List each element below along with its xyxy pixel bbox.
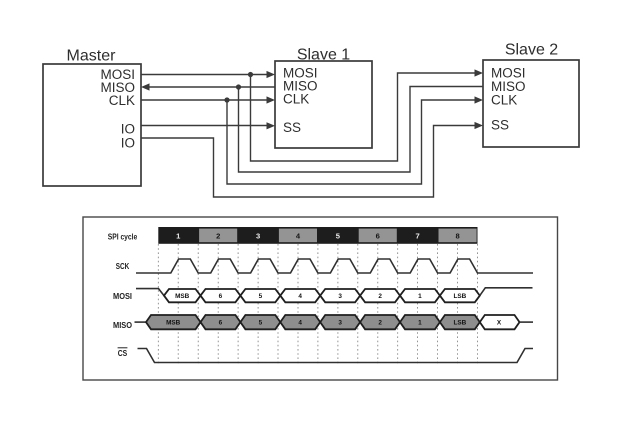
svg-text:5: 5 [259, 293, 263, 300]
svg-text:MSB: MSB [175, 293, 190, 300]
svg-text:CLK: CLK [491, 93, 517, 108]
svg-text:5: 5 [259, 320, 263, 327]
svg-text:LSB: LSB [454, 320, 467, 327]
svg-text:IO: IO [121, 136, 135, 151]
node MOSI junction [248, 72, 253, 77]
svg-text:8: 8 [455, 232, 459, 241]
svg-text:SPI cycle: SPI cycle [108, 231, 138, 241]
MISO bus segment LSB [440, 315, 480, 329]
svg-text:MOSI: MOSI [113, 291, 132, 301]
MISO bus segment 6 [201, 315, 241, 329]
MISO bus segment X [480, 315, 520, 329]
svg-text:6: 6 [219, 293, 223, 300]
svg-text:MISO: MISO [113, 320, 132, 330]
wire MISO slave1 to master [149, 86, 275, 88]
svg-text:SCK: SCK [116, 261, 130, 271]
block Slave 2 [483, 60, 579, 147]
svg-text:X: X [497, 320, 502, 327]
svg-text:3: 3 [338, 293, 342, 300]
MOSI bus segment 3 [320, 289, 360, 302]
SPI cycle bar [158, 227, 477, 244]
wire SS2 master IO to slave2 SS [141, 126, 476, 198]
svg-text:3: 3 [338, 320, 342, 327]
svg-text:MSB: MSB [166, 320, 181, 327]
svg-text:SS: SS [283, 120, 301, 135]
MISO bus segment 2 [360, 315, 400, 329]
wire SS1 master IO to slave1 SS [141, 125, 268, 127]
MISO bus segment 1 [400, 315, 440, 329]
block Master [43, 64, 141, 186]
svg-text:Slave 1: Slave 1 [297, 47, 350, 64]
svg-text:CLK: CLK [109, 93, 135, 108]
wire CLK master to slave1 [141, 99, 268, 101]
signal MOSI tail [480, 288, 533, 296]
svg-text:1: 1 [418, 320, 422, 327]
MOSI bus segment MSB [164, 289, 201, 302]
timing grid dotted verticals [158, 244, 477, 365]
svg-text:IO: IO [121, 122, 135, 137]
signal MISO tail [520, 321, 534, 323]
svg-text:3: 3 [256, 232, 260, 241]
svg-text:7: 7 [415, 232, 419, 241]
svg-text:SS: SS [491, 118, 509, 133]
svg-text:4: 4 [298, 320, 302, 327]
node MISO junction [236, 84, 241, 89]
MISO bus segment 4 [280, 315, 320, 329]
MOSI bus segment 4 [280, 289, 320, 302]
svg-text:6: 6 [376, 232, 380, 241]
wire CLK branch to slave2 [227, 100, 476, 184]
svg-text:LSB: LSB [454, 293, 467, 300]
block Slave 1 [275, 61, 372, 148]
signal SCK waveform [136, 259, 533, 273]
MOSI bus segment LSB [440, 289, 480, 302]
signal CS waveform [138, 349, 534, 363]
MOSI bus segment 2 [360, 289, 400, 302]
svg-text:Master: Master [67, 48, 117, 65]
svg-text:4: 4 [298, 293, 302, 300]
MOSI bus segment 6 [201, 289, 241, 302]
wire MOSI master to slave1 [141, 74, 268, 76]
svg-text:1: 1 [418, 293, 422, 300]
svg-text:2: 2 [216, 232, 220, 241]
svg-text:2: 2 [378, 320, 382, 327]
MISO bus segment 5 [240, 315, 280, 329]
signal MOSI lead-in [136, 289, 164, 296]
svg-text:6: 6 [219, 320, 223, 327]
svg-text:2: 2 [378, 293, 382, 300]
MOSI bus segment 5 [240, 289, 280, 302]
MOSI bus segment 1 [400, 289, 440, 302]
timing diagram frame [83, 217, 558, 380]
node CLK junction [224, 97, 229, 102]
signal MISO lead-in [135, 321, 147, 323]
svg-text:CS: CS [118, 348, 128, 358]
MISO bus segment 3 [320, 315, 360, 329]
svg-text:Slave 2: Slave 2 [505, 42, 558, 59]
svg-text:CLK: CLK [283, 92, 309, 107]
MISO bus segment MSB [146, 315, 201, 329]
wire MOSI branch to slave2 [251, 73, 476, 161]
wire MISO branch to slave2 [239, 87, 484, 173]
